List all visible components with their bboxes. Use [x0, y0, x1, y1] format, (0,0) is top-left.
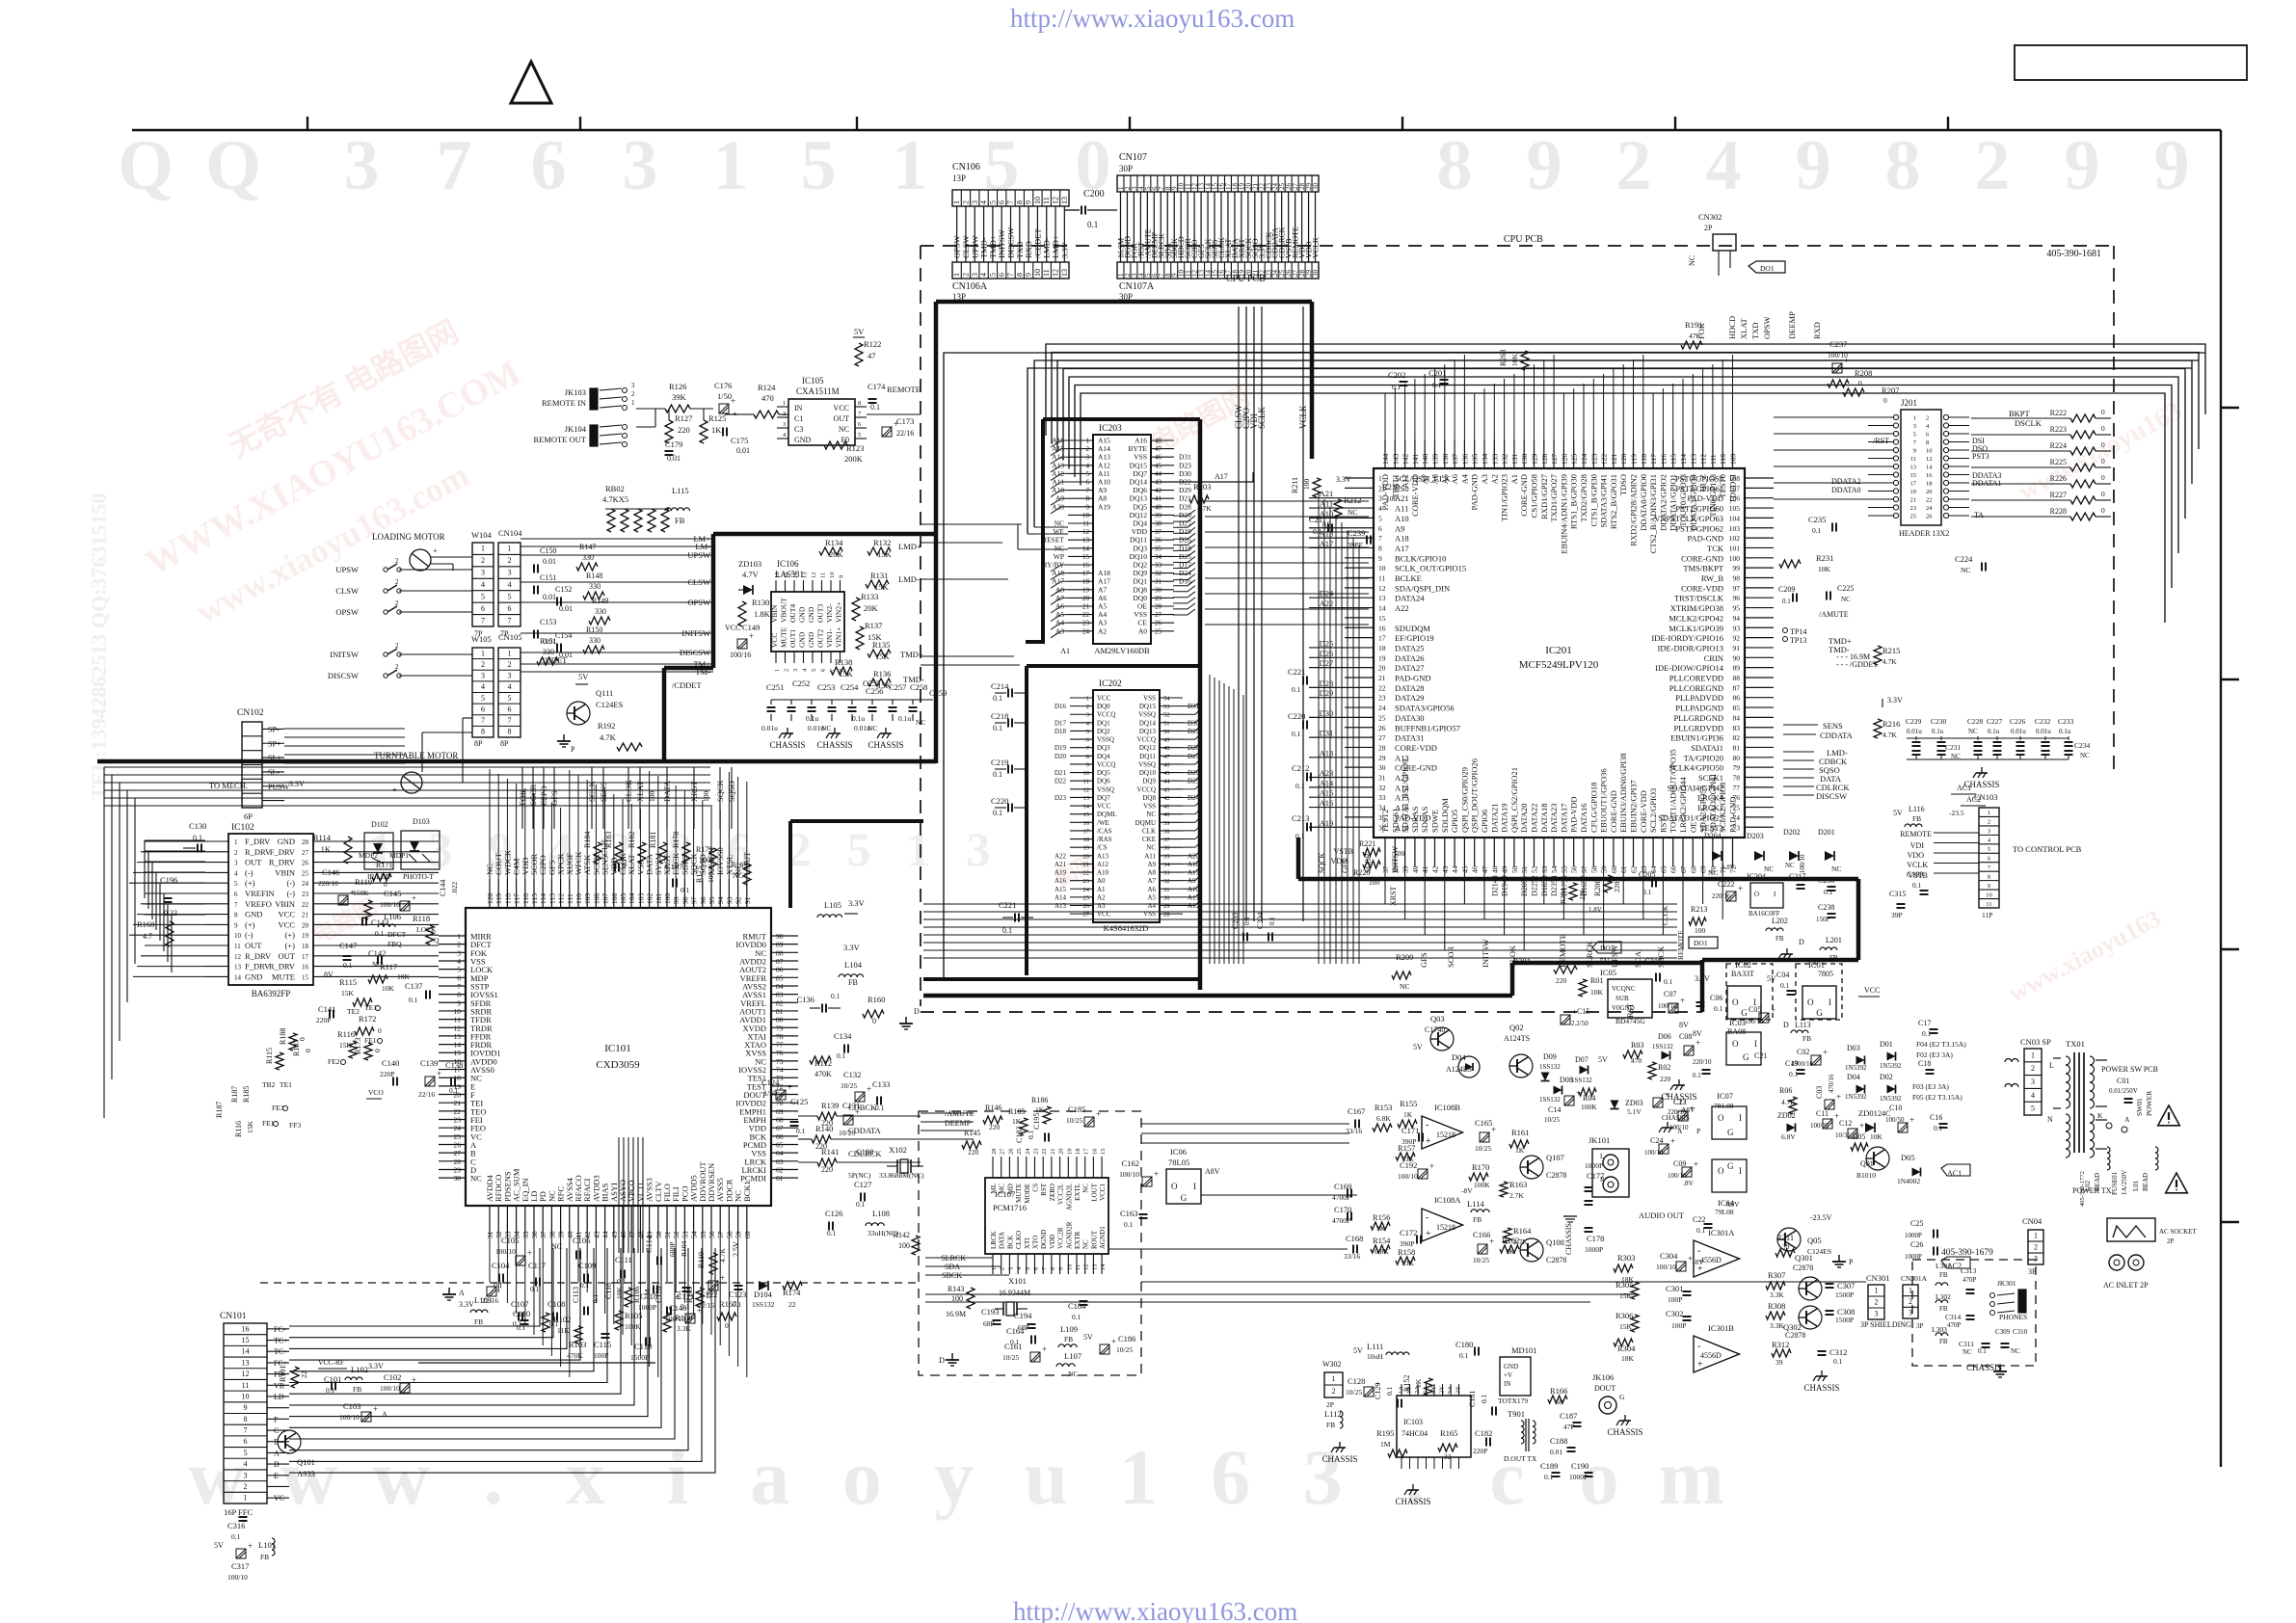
svg-text:TEST2: TEST2	[1380, 809, 1390, 833]
svg-text:12: 12	[1052, 269, 1060, 277]
svg-text:8: 8	[1015, 200, 1024, 204]
svg-text:10K: 10K	[1510, 354, 1519, 367]
svg-text:SDATA3/GPIO56: SDATA3/GPIO56	[1395, 704, 1455, 713]
svg-text:0.1u: 0.1u	[2059, 728, 2071, 735]
svg-text:R308: R308	[1768, 1301, 1785, 1311]
svg-text:TP14: TP14	[1790, 627, 1806, 636]
svg-text:12: 12	[1083, 786, 1090, 793]
svg-text:AC1: AC1	[1947, 1169, 1962, 1178]
svg-text:22/16: 22/16	[896, 429, 914, 438]
svg-text:5: 5	[988, 200, 997, 204]
svg-text:0.01: 0.01	[543, 557, 556, 566]
svg-text:102: 102	[646, 893, 654, 905]
svg-text:D05: D05	[1901, 1153, 1915, 1162]
svg-text:5: 5	[858, 432, 861, 439]
svg-text:DATA26: DATA26	[1395, 653, 1425, 663]
svg-text:R188: R188	[279, 1028, 287, 1045]
decorative watermark pink 2	[1145, 381, 1255, 459]
svg-text:K4S641632D: K4S641632D	[1104, 923, 1149, 933]
svg-text:CDDATA: CDDATA	[1820, 731, 1854, 740]
svg-text:33: 33	[1378, 793, 1386, 802]
svg-text:93: 93	[725, 896, 734, 904]
svg-text:78L05: 78L05	[1168, 1157, 1189, 1167]
svg-text:3.3K: 3.3K	[1770, 1290, 1784, 1299]
svg-text:VCCQ: VCCQ	[1137, 736, 1156, 744]
svg-text:1: 1	[1909, 1286, 1912, 1294]
svg-text:C301: C301	[1666, 1284, 1683, 1293]
svg-text:7: 7	[1086, 487, 1090, 494]
svg-text:R145: R145	[964, 1129, 980, 1137]
svg-text:C172: C172	[1400, 1228, 1417, 1237]
svg-text:NC: NC	[1688, 255, 1696, 266]
svg-text:20: 20	[1082, 595, 1090, 602]
svg-text:http://www.xiaoyu163.com: http://www.xiaoyu163.com	[1013, 1597, 1297, 1623]
svg-text:23: 23	[1033, 1149, 1040, 1156]
svg-text:+: +	[1429, 1161, 1434, 1171]
svg-text:PLLPADVDD: PLLPADVDD	[1675, 693, 1723, 703]
svg-text:R01: R01	[1590, 976, 1603, 985]
svg-text:6: 6	[1378, 524, 1382, 533]
svg-text:OUT: OUT	[279, 951, 296, 961]
svg-text:15K: 15K	[1619, 1291, 1633, 1300]
svg-text:BEAD: BEAD	[2094, 1173, 2101, 1191]
svg-text:112: 112	[1699, 454, 1708, 465]
svg-text:1500P: 1500P	[1835, 1290, 1854, 1299]
svg-text:+: +	[1111, 1337, 1116, 1346]
svg-text:22: 22	[788, 1300, 796, 1309]
svg-text:100/10: 100/10	[1656, 1263, 1676, 1271]
svg-text:10K: 10K	[1590, 988, 1604, 997]
svg-text:100: 100	[707, 872, 715, 884]
svg-text:3: 3	[481, 569, 485, 577]
svg-text:3: 3	[792, 669, 799, 672]
svg-text:15: 15	[242, 1336, 250, 1344]
svg-text:84: 84	[1733, 713, 1741, 722]
svg-text:132: 132	[1501, 454, 1509, 466]
svg-text:7: 7	[234, 901, 238, 909]
svg-text:106: 106	[610, 893, 619, 905]
svg-text:0.1: 0.1	[1027, 1130, 1035, 1139]
svg-text:8: 8	[234, 912, 238, 919]
svg-text:R161: R161	[1511, 1128, 1529, 1137]
svg-text:C2878: C2878	[1546, 1171, 1566, 1180]
svg-text:X102: X102	[889, 1145, 907, 1155]
svg-text:NC: NC	[1962, 1348, 1972, 1356]
svg-text:53: 53	[1163, 704, 1170, 710]
svg-text:I: I	[1193, 1182, 1196, 1191]
svg-text:115: 115	[1669, 454, 1678, 465]
svg-text:24: 24	[1082, 627, 1090, 635]
svg-text:A933: A933	[297, 1469, 315, 1478]
svg-text:25: 25	[1083, 894, 1090, 901]
svg-text:86: 86	[776, 966, 784, 974]
wire nested loop left	[944, 353, 2205, 979]
svg-text:100/10: 100/10	[1745, 1018, 1764, 1025]
svg-text:2: 2	[1086, 704, 1089, 710]
svg-text:90: 90	[776, 932, 784, 941]
wires IC102 to left edge	[145, 840, 205, 842]
svg-text:C174: C174	[868, 382, 886, 391]
svg-text:XLAT: XLAT	[1739, 317, 1749, 339]
svg-text:63: 63	[776, 1157, 784, 1166]
svg-text:TMS/BKPT: TMS/BKPT	[1683, 564, 1723, 573]
svg-text:IC06: IC06	[1170, 1147, 1187, 1157]
svg-text:+: +	[1154, 1169, 1159, 1179]
svg-text:21: 21	[302, 912, 309, 919]
svg-text:0: 0	[2101, 506, 2105, 515]
svg-text:4: 4	[457, 957, 461, 966]
svg-text:C01: C01	[2117, 1077, 2129, 1085]
svg-text:C132: C132	[843, 1070, 861, 1079]
svg-text:11P: 11P	[1982, 911, 1992, 919]
svg-text:1: 1	[907, 822, 931, 876]
svg-text:OUT1: OUT1	[788, 629, 797, 648]
svg-text:140: 140	[1421, 454, 1429, 466]
svg-text:18: 18	[1926, 481, 1933, 488]
svg-text:L01: L01	[2132, 1180, 2140, 1191]
svg-text:RXD: RXD	[1812, 322, 1822, 339]
svg-text:15: 15	[1910, 472, 1917, 479]
svg-text:A19: A19	[1055, 869, 1067, 877]
svg-text:C133: C133	[872, 1079, 890, 1089]
svg-text:11: 11	[1378, 574, 1385, 583]
svg-text:6: 6	[1211, 1433, 1250, 1521]
svg-text:8: 8	[1086, 754, 1089, 760]
svg-text:C183: C183	[1015, 1127, 1024, 1143]
svg-text:C118: C118	[640, 1291, 657, 1301]
svg-text:DATA29: DATA29	[1395, 693, 1425, 703]
svg-text:C130: C130	[189, 821, 206, 831]
svg-text:o: o	[842, 1433, 882, 1521]
svg-text:0.1: 0.1	[856, 1200, 866, 1209]
svg-text:D02: D02	[1880, 1073, 1893, 1081]
svg-text:A23: A23	[1320, 768, 1334, 778]
wires rotated label drops	[521, 767, 523, 829]
svg-text:1/50: 1/50	[763, 1089, 777, 1098]
svg-text:4.7KX5: 4.7KX5	[602, 494, 628, 504]
svg-text:83: 83	[776, 991, 784, 999]
svg-text:CDDATA: CDDATA	[848, 1126, 882, 1135]
svg-text:D201: D201	[1818, 828, 1835, 837]
svg-text:24: 24	[1025, 1148, 1031, 1155]
svg-text:A16: A16	[1320, 798, 1334, 808]
svg-text:x: x	[566, 1433, 605, 1521]
svg-text:NC: NC	[916, 718, 925, 727]
svg-text:R213: R213	[1691, 905, 1707, 914]
svg-text:0.1: 0.1	[620, 858, 628, 867]
svg-text:7: 7	[508, 716, 512, 725]
svg-text:1N4002: 1N4002	[1897, 1177, 1920, 1185]
svg-text:CHASSIS: CHASSIS	[769, 740, 805, 750]
svg-text:DQ12: DQ12	[1139, 744, 1157, 752]
svg-text:CN301A: CN301A	[1901, 1274, 1928, 1283]
svg-text:0.1: 0.1	[1295, 782, 1305, 790]
svg-text:8V: 8V	[1693, 1029, 1702, 1038]
svg-text:97: 97	[1733, 584, 1741, 593]
svg-text:C238: C238	[1818, 903, 1834, 912]
svg-text:C114: C114	[644, 1235, 654, 1253]
svg-text:DDATA3/GPIO4: DDATA3/GPIO4	[1688, 473, 1697, 531]
svg-text:116: 116	[1659, 454, 1668, 465]
svg-text:FB: FB	[1829, 954, 1838, 962]
svg-text:90: 90	[1733, 653, 1741, 662]
svg-text:DQ14: DQ14	[1139, 719, 1157, 727]
svg-text:C175: C175	[731, 436, 748, 445]
svg-text:74: 74	[776, 1066, 784, 1075]
svg-text:JK301: JK301	[1997, 1279, 2016, 1288]
svg-text:3: 3	[344, 126, 380, 205]
svg-text:NC: NC	[733, 871, 743, 880]
svg-text:C220: C220	[1288, 711, 1305, 721]
wires CN101 risers	[618, 1137, 620, 1253]
svg-text:C310: C310	[2013, 1328, 2028, 1336]
svg-text:CLKO: CLKO	[1015, 1231, 1023, 1249]
svg-text:19: 19	[1910, 489, 1917, 495]
svg-text:3: 3	[244, 1471, 248, 1479]
svg-text:0: 0	[2101, 473, 2105, 482]
svg-text:C170: C170	[1334, 1205, 1351, 1214]
svg-text:4: 4	[1086, 720, 1090, 727]
svg-text:3Y: 3Y	[1455, 1386, 1462, 1394]
svg-text:10K: 10K	[1818, 565, 1831, 573]
svg-text:CHASSIS: CHASSIS	[1564, 1223, 1573, 1255]
svg-text:11: 11	[820, 572, 827, 578]
svg-text:3: 3	[971, 200, 979, 204]
svg-text:A7: A7	[1147, 877, 1156, 885]
svg-text:DQ10: DQ10	[1139, 769, 1157, 777]
svg-text:9: 9	[1086, 503, 1090, 511]
svg-text:R156: R156	[1373, 1212, 1390, 1222]
svg-text:+: +	[1697, 1359, 1703, 1370]
svg-text:D03: D03	[1847, 1044, 1860, 1052]
svg-text:3.3V: 3.3V	[1887, 696, 1903, 705]
svg-text:R175: R175	[695, 866, 704, 883]
svg-text:1: 1	[508, 545, 512, 553]
svg-text:0.1: 0.1	[993, 770, 1002, 779]
svg-text:2: 2	[1000, 1267, 1006, 1270]
svg-text:52: 52	[1163, 712, 1170, 719]
svg-text:VBIN: VBIN	[275, 867, 295, 877]
svg-text:11: 11	[1083, 779, 1089, 785]
svg-text:35: 35	[1155, 545, 1162, 552]
svg-text:TDSO: TDSO	[1618, 474, 1628, 495]
svg-text:3.3V: 3.3V	[1695, 974, 1710, 983]
svg-text:BEAD: BEAD	[2142, 1173, 2149, 1191]
thick bus vertical left	[934, 302, 939, 763]
svg-text:139: 139	[1431, 454, 1440, 466]
svg-text:D26: D26	[1320, 649, 1334, 658]
svg-text:121: 121	[1610, 454, 1618, 466]
svg-text:10: 10	[1083, 770, 1090, 777]
svg-text:R131: R131	[870, 571, 888, 580]
svg-text:3: 3	[508, 672, 512, 680]
svg-text:3: 3	[631, 382, 635, 389]
svg-text:7: 7	[457, 982, 461, 991]
svg-text:R178: R178	[672, 832, 681, 848]
svg-text:RB02: RB02	[605, 484, 625, 493]
svg-text:4.7: 4.7	[143, 932, 152, 941]
svg-text:101: 101	[654, 893, 663, 905]
svg-text:IC106: IC106	[777, 559, 799, 569]
svg-text:+: +	[749, 631, 754, 641]
svg-text:19: 19	[1082, 586, 1090, 594]
svg-text:TE1: TE1	[280, 1080, 292, 1089]
svg-text:R_DRV: R_DRV	[269, 858, 296, 867]
svg-text:C139: C139	[420, 1058, 438, 1068]
svg-text:CORE-VDD: CORE-VDD	[1410, 474, 1420, 517]
svg-text:C218: C218	[991, 711, 1008, 721]
svg-text:100: 100	[898, 1241, 910, 1250]
svg-text:77: 77	[776, 1041, 784, 1050]
svg-text:2: 2	[1975, 126, 2011, 205]
svg-text:10/25: 10/25	[841, 1081, 857, 1090]
svg-text:1SS132: 1SS132	[1539, 1096, 1561, 1104]
svg-text:3: 3	[1988, 828, 1990, 835]
svg-text:R204: R204	[1559, 888, 1567, 904]
svg-text:R122: R122	[864, 339, 881, 349]
svg-text:C253: C253	[817, 682, 835, 692]
svg-text:124: 124	[1580, 454, 1589, 466]
svg-text:+: +	[248, 1541, 253, 1551]
svg-text:R140: R140	[815, 1124, 833, 1133]
svg-text:470: 470	[1631, 1056, 1642, 1065]
motor M104	[410, 549, 431, 571]
svg-text:47: 47	[1163, 754, 1170, 760]
svg-text:4: 4	[2031, 1091, 2035, 1100]
svg-text:11: 11	[1042, 269, 1051, 277]
svg-text:21: 21	[454, 1099, 462, 1107]
svg-text:DO1: DO1	[1694, 939, 1708, 947]
svg-text:i: i	[667, 1433, 689, 1521]
svg-text:C201: C201	[1428, 368, 1446, 378]
svg-text:13: 13	[454, 1032, 462, 1041]
svg-text:100: 100	[1302, 479, 1311, 491]
svg-text:POWER SW PCB: POWER SW PCB	[2101, 1065, 2158, 1074]
svg-text:12: 12	[1052, 197, 1060, 204]
svg-text:99: 99	[1733, 564, 1741, 572]
svg-text:2: 2	[1909, 1297, 1912, 1306]
svg-text:56: 56	[707, 1231, 716, 1238]
svg-text:16: 16	[1378, 624, 1386, 632]
svg-text:33/16: 33/16	[1346, 1127, 1362, 1135]
svg-text:C26: C26	[1910, 1240, 1923, 1249]
svg-text:R115: R115	[339, 977, 357, 987]
dashed border CPU PCB right	[2113, 246, 2115, 771]
svg-text:w: w	[373, 1433, 430, 1521]
svg-text:P: P	[1696, 1127, 1700, 1135]
wire left edge verticals	[103, 767, 105, 1118]
svg-text:C126: C126	[825, 1209, 842, 1218]
svg-text:22: 22	[1378, 683, 1386, 692]
svg-text:BUFFNB1/GPIO57: BUFFNB1/GPIO57	[1395, 723, 1460, 732]
svg-text:142: 142	[1402, 454, 1410, 466]
svg-text:4: 4	[481, 682, 485, 691]
svg-text:MC: MC	[999, 1184, 1006, 1194]
svg-text:C233: C233	[2058, 717, 2074, 726]
svg-text:9: 9	[2065, 126, 2100, 205]
svg-text:22: 22	[1082, 611, 1090, 619]
svg-text:14: 14	[1083, 804, 1090, 811]
svg-text:110: 110	[574, 893, 583, 904]
svg-text:96: 96	[1733, 594, 1741, 602]
svg-text:C182: C182	[1475, 1428, 1492, 1438]
svg-text:Q: Q	[118, 126, 174, 205]
svg-text:NC: NC	[1708, 868, 1718, 877]
wire bundle CN102 right	[284, 728, 405, 730]
svg-text:26: 26	[1007, 1148, 1014, 1155]
svg-text:470/16: 470/16	[1828, 1074, 1835, 1093]
svg-text:R118: R118	[413, 914, 430, 923]
svg-text:IC105: IC105	[802, 376, 824, 386]
svg-text:16: 16	[1082, 562, 1090, 570]
svg-text:VCC2R: VCC2R	[1057, 1227, 1065, 1249]
svg-text:1: 1	[2031, 1051, 2035, 1059]
decorative watermark pink 6	[1052, 850, 1101, 891]
svg-text:10: 10	[1082, 512, 1090, 519]
svg-text:SCOR: SCOR	[1364, 852, 1373, 873]
svg-text:40: 40	[1411, 865, 1420, 873]
svg-text:4.7K: 4.7K	[1882, 657, 1897, 666]
svg-text:95: 95	[707, 896, 716, 904]
svg-text:C116: C116	[604, 1283, 613, 1299]
svg-text:D31: D31	[1320, 729, 1334, 738]
svg-text:R102: R102	[553, 1315, 571, 1324]
svg-text:L: L	[1600, 1153, 1604, 1160]
svg-text:NC: NC	[1841, 596, 1851, 603]
svg-text:VSSQ: VSSQ	[1097, 736, 1114, 744]
svg-text:DQ1: DQ1	[1097, 719, 1110, 727]
svg-text:+: +	[412, 893, 416, 903]
svg-text:NC: NC	[839, 425, 849, 434]
svg-text:C12: C12	[1839, 1119, 1852, 1128]
svg-text:10/25: 10/25	[1346, 1388, 1362, 1397]
svg-text:R173: R173	[354, 1038, 362, 1054]
svg-text:C11: C11	[1816, 1109, 1829, 1118]
svg-text:15: 15	[784, 572, 790, 579]
svg-text:A13: A13	[1320, 748, 1334, 758]
svg-text:F03 (E3 3A): F03 (E3 3A)	[1912, 1082, 1949, 1091]
svg-text:I: I	[1754, 1039, 1757, 1049]
svg-text:4: 4	[1086, 462, 1090, 469]
svg-text:SENS: SENS	[1823, 721, 1843, 731]
svg-text:R181: R181	[649, 832, 657, 848]
svg-text:C171: C171	[1402, 1126, 1419, 1135]
svg-text:40: 40	[1155, 503, 1162, 511]
svg-text:C15: C15	[1577, 1007, 1589, 1016]
svg-text:D: D	[1783, 1021, 1789, 1029]
svg-text:0.1: 0.1	[831, 992, 841, 1000]
svg-text:DQML: DQML	[1097, 811, 1117, 818]
svg-text:5: 5	[481, 694, 485, 703]
svg-text:R166: R166	[1550, 1386, 1567, 1396]
svg-text:R150: R150	[586, 625, 602, 634]
svg-text:20: 20	[1378, 664, 1386, 673]
svg-text:36: 36	[1163, 845, 1170, 852]
svg-text:DDATA0/GPIO0: DDATA0/GPIO0	[1639, 474, 1648, 531]
svg-text:1A: 1A	[1398, 1386, 1404, 1394]
svg-text:0.1: 0.1	[326, 1386, 335, 1395]
svg-text:C311: C311	[1959, 1340, 1974, 1348]
svg-text:0.1: 0.1	[1295, 832, 1305, 840]
svg-text:A15: A15	[1320, 788, 1334, 798]
svg-text:2: 2	[1332, 1387, 1336, 1396]
svg-text:37: 37	[539, 1231, 547, 1238]
svg-text:31: 31	[1378, 774, 1386, 783]
svg-text:VCCQ: VCCQ	[1097, 711, 1115, 719]
svg-text:O: O	[1171, 1182, 1178, 1191]
svg-text:C168: C168	[1346, 1234, 1363, 1243]
svg-text:VIN2+: VIN2+	[835, 602, 843, 623]
